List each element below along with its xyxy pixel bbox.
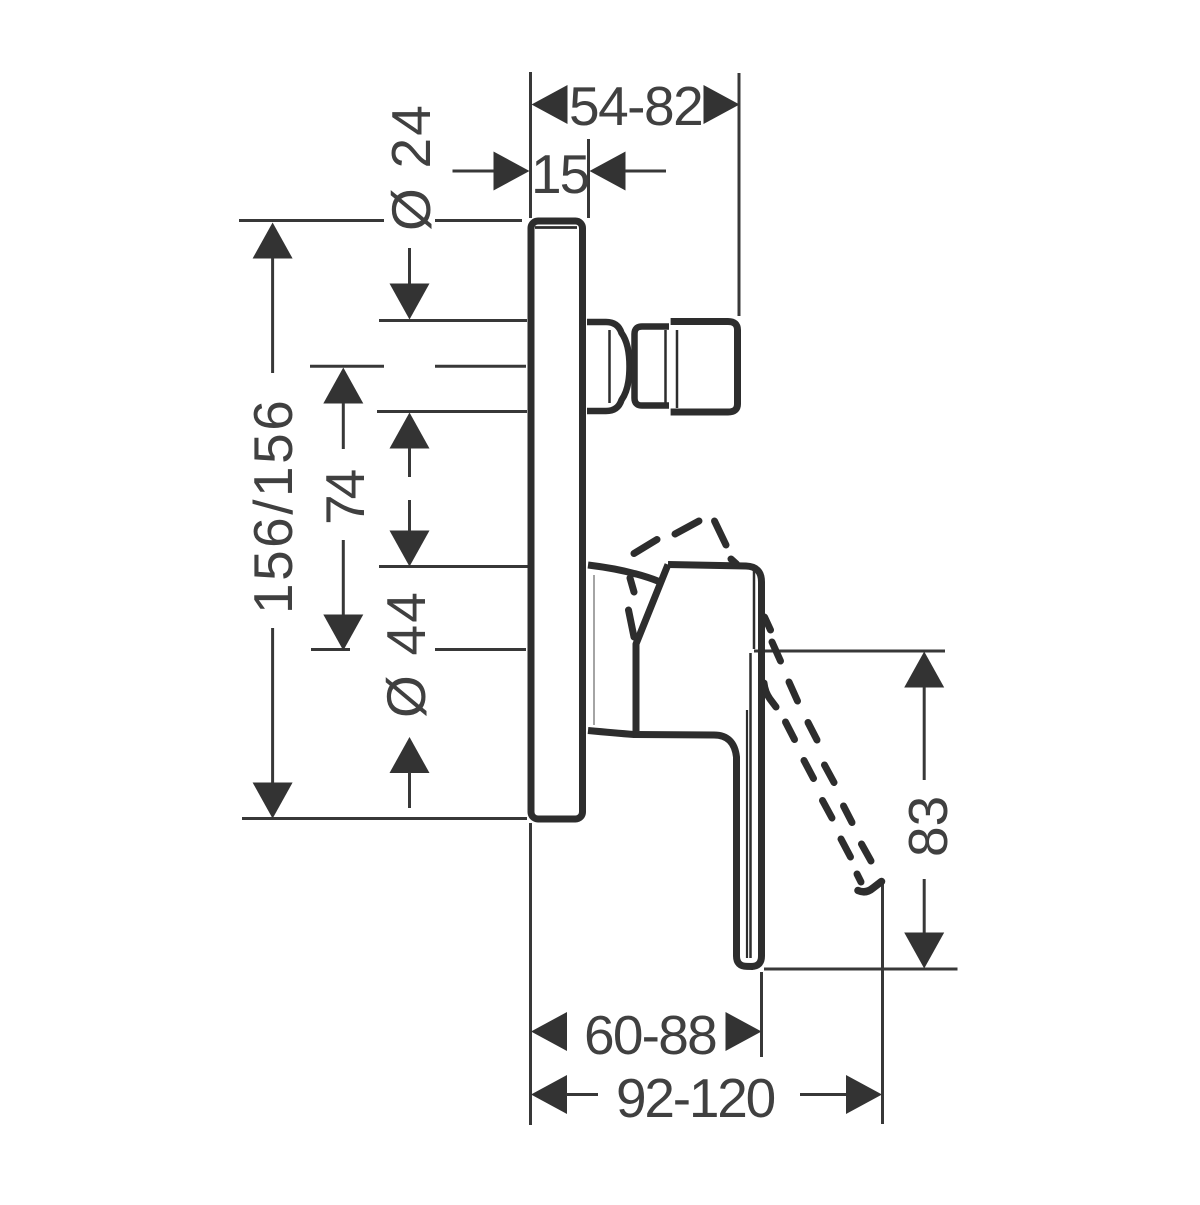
svg-text:92-120: 92-120 [616, 1067, 775, 1129]
knob front section [635, 327, 670, 406]
sleeve top arc [588, 565, 659, 582]
extension line E2 (plate right face) [587, 139, 590, 218]
extension line E5 (dashed lever tip) [881, 884, 884, 1124]
dim 83 arrow down [904, 933, 944, 969]
svg-text:Ø 24: Ø 24 [380, 103, 442, 231]
extension line L6 handle axis right [435, 648, 526, 651]
chain shaft upper [408, 448, 411, 477]
extension line L2 knob top [379, 319, 527, 322]
alt handle corner nub [731, 559, 737, 564]
dim 83 arrow up [904, 652, 944, 688]
extension line E6 (83 top) [754, 650, 945, 653]
dim 83 shaft top [923, 687, 926, 780]
sleeve inner thin line [593, 575, 595, 725]
extension line E3 (knob right face) [738, 73, 741, 316]
dim 74 arrow up [323, 368, 363, 404]
knob front right thin line [664, 330, 667, 403]
escutcheon plate [531, 221, 583, 819]
alt lever right line dash 2 [789, 682, 798, 701]
alt handle left dash 1 [630, 578, 634, 592]
extension line E1 (plate left face, bottom) [529, 823, 532, 1125]
chain shaft lower [408, 500, 411, 531]
svg-text:54-82: 54-82 [569, 75, 702, 137]
dim 74 shaft bottom [342, 540, 345, 615]
valve stem [587, 322, 630, 411]
dim 92-120 tail right [800, 1093, 847, 1096]
svg-text:Ø 44: Ø 44 [375, 590, 437, 718]
alt handle top edge dash 2 [675, 521, 699, 534]
dim 15 tail right [625, 170, 666, 173]
knob main body [671, 322, 738, 413]
dim 92-120 tail left [566, 1093, 598, 1096]
alt lever right line dash 0 (tick behind handle edge) [765, 617, 771, 630]
extension line L6 handle axis left [311, 648, 350, 651]
extension line L3 knob axis left [310, 365, 384, 368]
handle left slope and edge [636, 565, 668, 732]
extension line L4 knob bottom [377, 410, 527, 413]
alt lever left line dash 3 [804, 761, 814, 779]
dim O24 shaft top [408, 248, 411, 284]
dim 156/156 shaft bottom [271, 628, 274, 783]
alt handle top edge dash 1 [634, 540, 657, 554]
dim O44 arrow up [390, 737, 430, 773]
extension line L5 sleeve top [379, 565, 528, 568]
dim O44 shaft bottom [408, 772, 411, 808]
dim 74 shaft top [342, 403, 345, 449]
alt lever right line dash 1 [772, 642, 781, 661]
svg-text:156/156: 156/156 [242, 398, 304, 614]
dim 54-82 arrow left [532, 85, 568, 124]
dim 156/156 arrow down [253, 783, 293, 819]
dim 15 arrow left [494, 152, 530, 191]
alt lever left line dash 4 [823, 801, 833, 819]
chain arrow down (O44 top) [390, 531, 430, 567]
dim 92-120 arrow right [846, 1075, 882, 1114]
extension line E1 (plate left face, top) [529, 72, 532, 218]
alt lever right line dash 3 [808, 723, 817, 741]
alt lever right line dash 6 [862, 844, 872, 861]
handle thin line upper [753, 569, 756, 649]
extension line L3 knob axis right [435, 365, 526, 368]
extension line L1 plate top right segment [435, 219, 522, 222]
handle bottom edge and grip outer edge [633, 735, 753, 967]
extension line L1 plate top left segment [239, 219, 384, 222]
dim 83 shaft bottom [923, 879, 926, 933]
knob junction thin line [676, 330, 679, 408]
handle thin line lower [746, 710, 748, 958]
handle thin line mid [749, 653, 752, 958]
alt lever left line dash 2 [786, 722, 795, 740]
sleeve bottom arc [588, 731, 634, 735]
dim 15 tail left [453, 170, 495, 173]
svg-text:74: 74 [314, 470, 376, 525]
plate inner top line [535, 226, 577, 229]
dim 74 arrow down [323, 615, 363, 651]
dim 156/156 shaft top [271, 258, 274, 373]
dim 92-120 arrow left [531, 1075, 567, 1114]
dim 156/156 arrow up [253, 223, 293, 259]
svg-text:83: 83 [897, 796, 959, 857]
svg-text:15: 15 [531, 143, 589, 205]
alt lever right line dash 5 [844, 806, 853, 823]
svg-text:60-88: 60-88 [584, 1004, 716, 1066]
stem inner line [608, 330, 611, 403]
chain arrow up (O24 bottom) [390, 413, 430, 449]
extension line L7 plate bottom [242, 817, 527, 820]
alt lever left line dash 5 [841, 839, 851, 857]
extension line E7 (83 bottom) [764, 968, 958, 971]
alt lever right line dash 4 [825, 765, 835, 783]
alt lever left line dash 6 (short) [857, 874, 861, 882]
handle top and front edge [668, 565, 762, 967]
dim 60-88 arrow right [726, 1012, 762, 1051]
alt handle corner cap dash [715, 521, 727, 545]
alt lever left line dash 1 (hook at edge) [764, 683, 776, 707]
dim 60-88 arrow left [531, 1012, 567, 1051]
alt handle left dash 2 [629, 610, 635, 637]
dim 54-82 arrow right [704, 85, 740, 124]
alt lever tip cap [858, 882, 882, 892]
extension line E4 (lever front face) [760, 972, 763, 1057]
dim 15 arrow right [590, 152, 626, 191]
dim O24 arrow down [390, 284, 430, 320]
